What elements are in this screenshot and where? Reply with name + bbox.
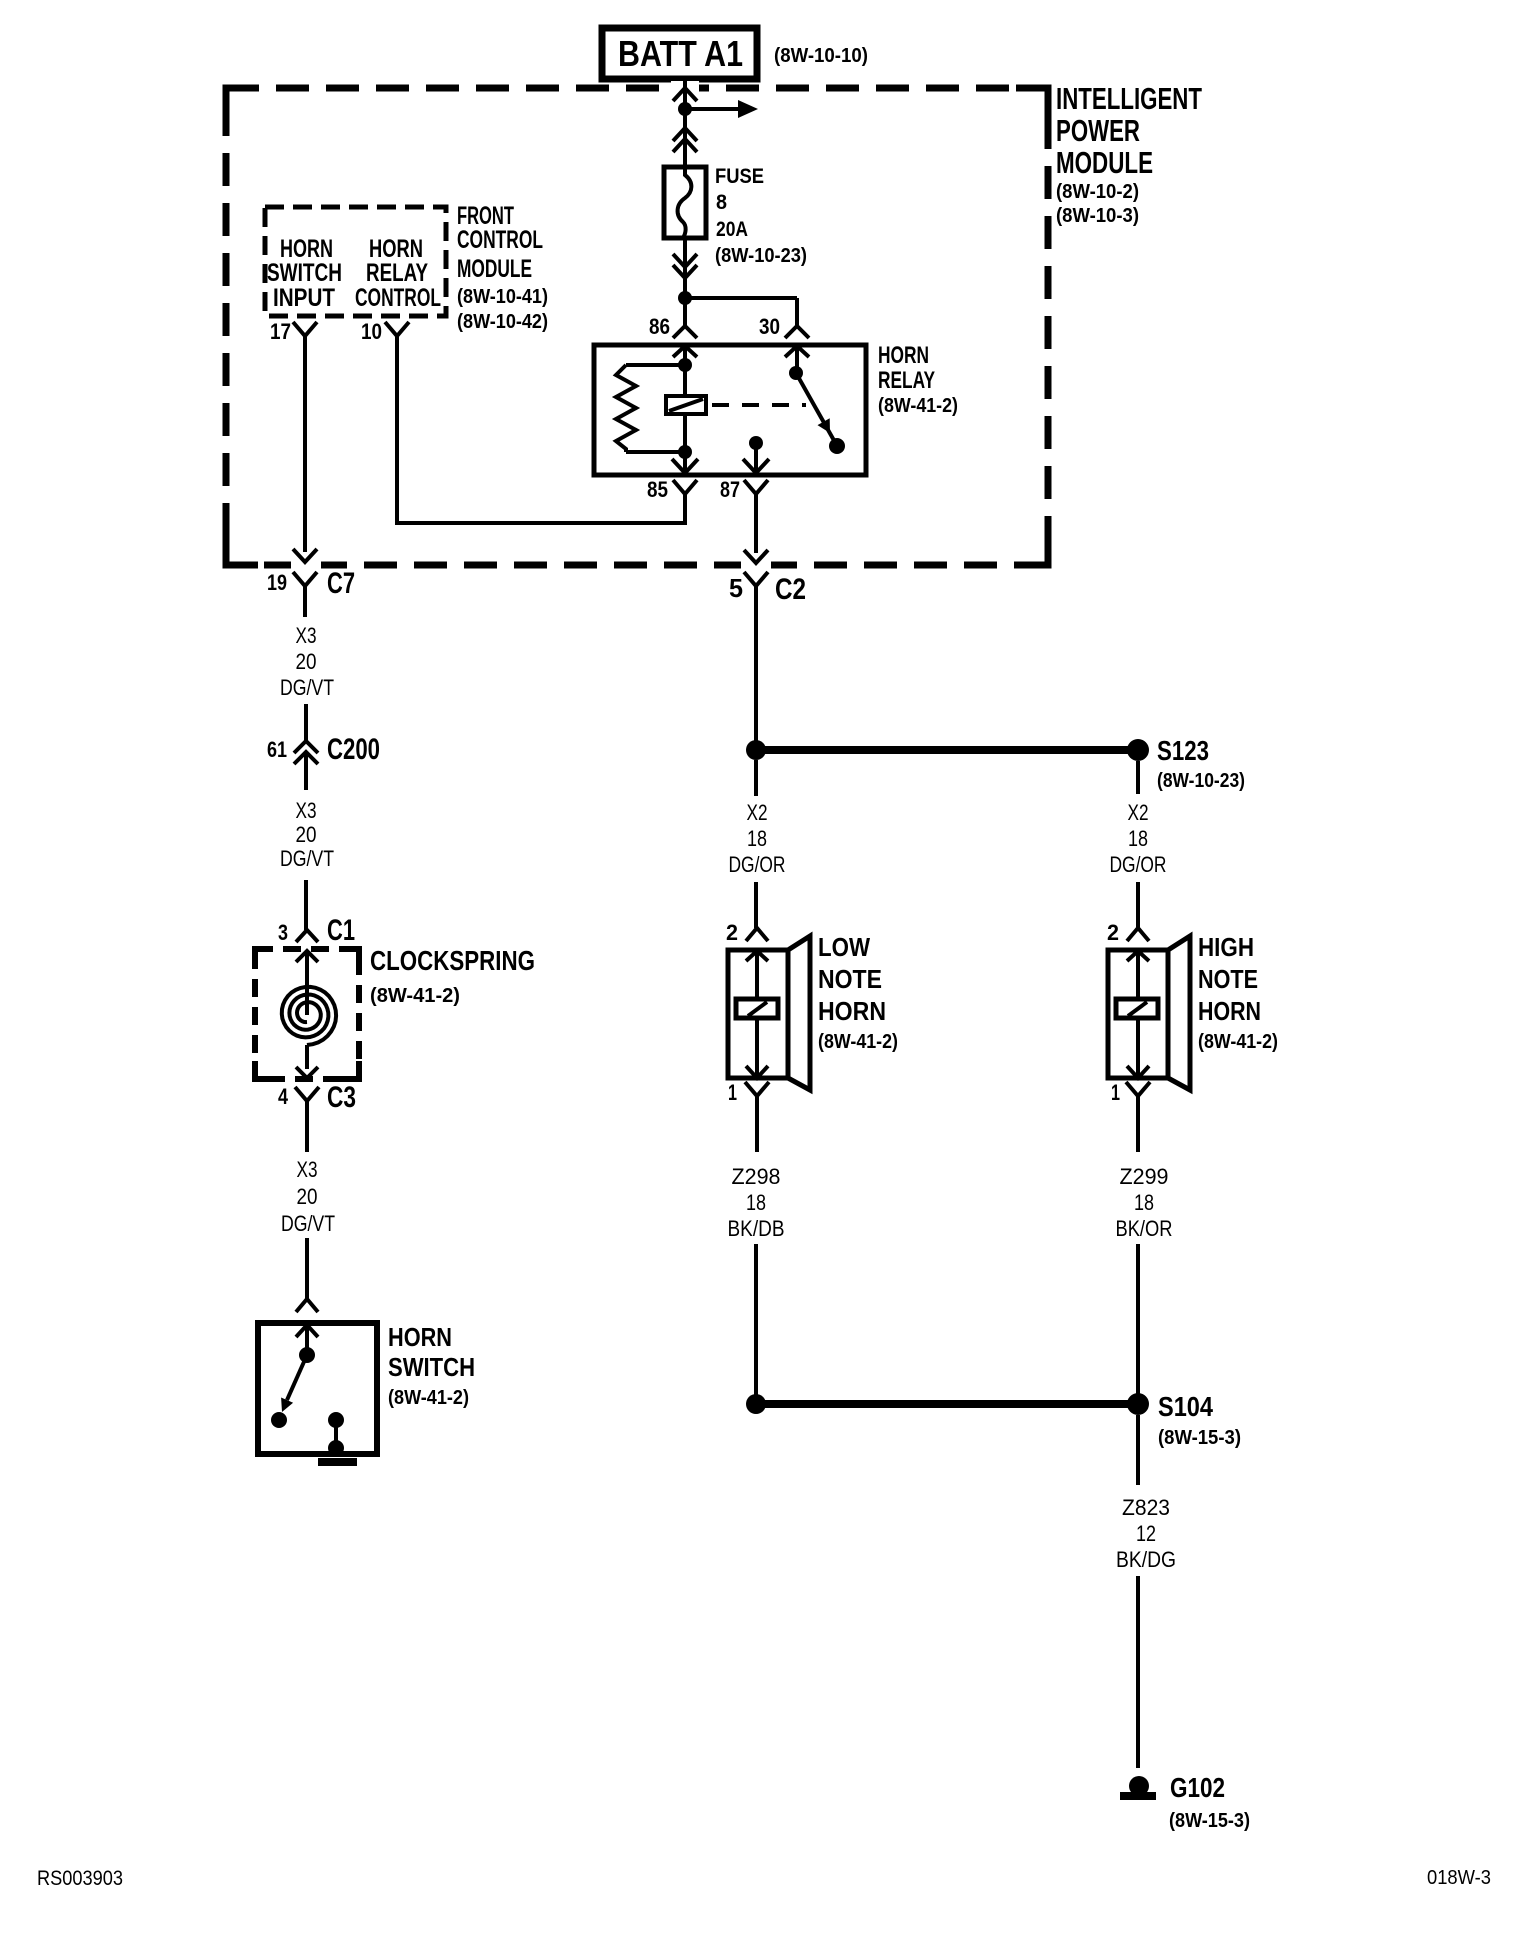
wire C3 to horn switch [305,1238,309,1299]
clockspring box (dashed) [255,949,359,1079]
svg-text:61: 61 [267,737,287,762]
wire battery feed into IPM [683,79,687,109]
arrow out of low note horn [746,1066,768,1078]
svg-text:MODULE: MODULE [1056,145,1153,180]
svg-text:POWER: POWER [1056,113,1140,148]
arrow into low note horn [746,951,768,961]
clockspring coil symbol [282,951,336,1069]
svg-text:CONTROL: CONTROL [355,284,441,312]
connector pin 1 high note horn [1126,1082,1150,1152]
svg-text:87: 87 [720,477,740,502]
connector pin 17 [293,322,317,345]
relay pin 87 junction [749,436,763,450]
high note horn label [1198,932,1278,1053]
svg-text:NOTE: NOTE [1198,964,1258,994]
junction relay coil bottom [678,445,692,459]
junction to S104 [746,1394,766,1414]
connector into horn switch [296,1299,318,1312]
wire label X3 20 DG/VT middle [280,798,334,871]
svg-text:HORN: HORN [878,342,929,369]
svg-text:(8W-41-2): (8W-41-2) [818,1031,898,1053]
clockspring label [370,945,535,1007]
horn switch ground contact [328,1412,344,1456]
wire S104 to ground G102 [1136,1576,1140,1768]
svg-text:SWITCH: SWITCH [388,1352,475,1382]
svg-text:LOW: LOW [818,932,870,962]
svg-text:12: 12 [1136,1521,1156,1546]
wire high note horn to S104 [1136,1244,1140,1395]
connector pin 1 low note horn [745,1082,769,1152]
pin 5 label [729,573,743,603]
battery feed reference label [774,45,868,67]
svg-text:C200: C200 [327,733,380,766]
svg-text:HORN: HORN [388,1322,452,1352]
horn relay box [594,345,866,475]
pin 10 label [361,319,382,344]
svg-text:SWITCH: SWITCH [267,259,342,287]
svg-text:CLOCKSPRING: CLOCKSPRING [370,945,535,976]
wire horn relay control to relay pin 85 [395,345,687,523]
front control module box (dashed) [265,207,446,316]
arrow into clockspring [296,951,318,962]
wire label Z298 18 BK/DB [728,1164,785,1241]
svg-text:DG/VT: DG/VT [280,675,334,700]
svg-text:(8W-10-2): (8W-10-2) [1056,181,1139,203]
pin 2 label (low note) [726,920,738,945]
svg-text:HORN: HORN [1198,996,1261,1026]
svg-text:X2: X2 [747,800,768,825]
svg-text:(8W-41-2): (8W-41-2) [878,395,958,417]
arrow into battery feed at IPM border [673,88,697,101]
pin 4 label [278,1084,289,1109]
svg-text:Z823: Z823 [1122,1495,1170,1520]
wire junction to relay pin 30 [685,296,797,300]
high note horn coil [1116,999,1158,1018]
svg-text:85: 85 [647,477,668,502]
low note horn wire upper [755,951,759,999]
connector pin 10 [385,322,409,345]
arrow out of high note horn [1127,1066,1149,1078]
horn switch arm [281,1355,307,1412]
IPM name label [1056,81,1202,227]
arrow out of clockspring [296,1067,318,1078]
low note horn bell [788,936,810,1090]
horn relay control label [355,235,441,312]
arrow into relay at pin 86 [673,346,697,357]
svg-text:30: 30 [759,314,780,339]
pin 61 label [267,737,287,762]
wire horn switch input to C7 [303,345,307,552]
svg-text:18: 18 [1128,826,1148,851]
wire label Z299 18 BK/OR [1116,1164,1173,1241]
connector C200 name [327,733,380,766]
wire label X2 18 DG/OR (high note) [1110,800,1167,877]
svg-text:(8W-10-41): (8W-10-41) [457,286,548,308]
svg-text:HIGH: HIGH [1198,932,1254,962]
svg-text:RELAY: RELAY [366,259,428,287]
wire relay coil to pin 85 [683,414,687,473]
connector C1 [296,930,318,942]
connector C7 name [327,567,355,600]
ground G102 symbol [1120,1776,1156,1800]
Intelligent Power Module boundary (dashed) [226,81,1048,572]
svg-text:20A: 20A [716,218,748,241]
svg-text:HORN: HORN [818,996,886,1026]
low note horn coil [736,999,778,1018]
wire junction to fuse [683,109,687,167]
pin 1 label (high note) [1111,1080,1120,1105]
wire low note horn to S104 bus [754,1244,758,1395]
svg-text:DG/VT: DG/VT [280,846,334,871]
horn switch pivot contact [299,1347,315,1363]
connector C3 name [327,1081,356,1114]
fuse 8 20A [664,167,706,238]
pin 17 label [270,319,291,344]
relay contact pivot [789,366,803,380]
svg-text:RELAY: RELAY [878,367,935,394]
low note horn wire lower [755,1018,759,1076]
pin 30 label [759,314,780,339]
junction relay coil top [678,358,692,372]
footer drawing number left [37,1867,123,1890]
connector pin 87 [744,480,768,551]
junction below fuse [678,291,692,305]
arrow out of relay at pin 85 [672,459,698,473]
svg-text:BATT A1: BATT A1 [618,33,743,74]
arrow into high note horn [1127,951,1149,961]
wire horn switch internal [305,1325,309,1354]
connector C1 name [327,914,355,947]
ground G102 name [1169,1772,1250,1832]
svg-text:X3: X3 [296,798,317,823]
svg-text:20: 20 [296,649,317,674]
junction at battery feed [678,102,692,116]
svg-text:2: 2 [1107,920,1119,945]
svg-text:S123: S123 [1157,735,1209,766]
svg-text:C3: C3 [327,1081,356,1114]
pin 2 label (high note) [1107,920,1119,945]
pin 1 label (low note) [728,1080,737,1105]
svg-text:20: 20 [296,822,317,847]
svg-text:Z298: Z298 [732,1164,781,1189]
wire C200 to C1 [304,880,308,930]
relay resistor [616,365,685,452]
wire arrow to other circuits [685,100,758,118]
svg-text:18: 18 [1134,1190,1154,1215]
connector C2 name [775,573,806,606]
connector pin 86 [673,298,697,338]
svg-text:MODULE: MODULE [457,255,532,283]
svg-text:(8W-10-3): (8W-10-3) [1056,205,1139,227]
relay coil [666,396,706,414]
relay contact fixed point [829,438,845,454]
wire junction down segment [754,760,758,796]
svg-text:86: 86 [649,314,670,339]
svg-text:10: 10 [361,319,382,344]
arrow out of relay at pin 87 [743,459,769,473]
wire label Z823 12 BK/DG [1116,1495,1176,1572]
svg-text:8: 8 [716,191,727,214]
svg-text:DG/OR: DG/OR [1110,852,1167,877]
pin 86 label [649,314,670,339]
svg-text:(8W-10-23): (8W-10-23) [715,245,807,267]
pin 3 label [278,920,288,945]
wire relay pin 30 internal [795,347,799,372]
svg-text:S104: S104 [1158,1391,1213,1422]
high note horn bell [1168,936,1190,1090]
wire fuse to relay branch [683,238,687,298]
high note horn wire upper [1136,951,1140,999]
svg-text:17: 17 [270,319,291,344]
splice S123 name [1157,735,1245,792]
horn switch box [258,1323,377,1454]
arrow into horn switch [296,1325,318,1337]
svg-text:1: 1 [1111,1080,1120,1105]
wire C7 to C200 [304,704,308,741]
double chevron down below fuse [673,254,697,278]
connector pin 85 [673,480,697,523]
connector pin 2 high note horn [1127,928,1149,941]
svg-text:DG/VT: DG/VT [281,1211,335,1236]
horn relay label [878,342,958,417]
svg-text:(8W-41-2): (8W-41-2) [1198,1031,1278,1053]
svg-text:G102: G102 [1170,1772,1225,1803]
svg-text:(8W-15-3): (8W-15-3) [1169,1810,1250,1832]
svg-text:RS003903: RS003903 [37,1867,123,1890]
svg-text:1: 1 [728,1080,737,1105]
junction to S123 [746,740,766,760]
svg-text:(8W-15-3): (8W-15-3) [1158,1427,1241,1449]
svg-text:C2: C2 [775,573,806,606]
svg-text:X2: X2 [1128,800,1149,825]
wire to high note horn [1136,882,1140,928]
low note horn label [818,932,898,1053]
arrow out of IPM at C2 [744,550,768,563]
svg-text:C1: C1 [327,914,355,947]
svg-text:(8W-10-42): (8W-10-42) [457,311,548,333]
connector C3 [295,1087,319,1152]
svg-text:INPUT: INPUT [273,284,335,312]
wire label X3 20 DG/VT lower [281,1157,335,1236]
connector C7 [293,572,317,617]
svg-text:3: 3 [278,920,288,945]
svg-text:5: 5 [729,573,743,603]
wire splice bus to S123 [756,746,1138,754]
svg-text:NOTE: NOTE [818,964,882,994]
pin 19 label [267,570,287,595]
horn switch input label [267,235,342,312]
svg-text:19: 19 [267,570,287,595]
high note horn box [1108,950,1168,1078]
wire relay pin 87 to C2 [754,551,758,553]
battery feed BATT A1 box [602,28,757,79]
svg-text:2: 2 [726,920,738,945]
wire label X2 18 DG/OR (low note) [729,800,786,877]
splice S123 [1127,739,1149,761]
svg-text:(8W-10-10): (8W-10-10) [774,45,868,67]
wire label X3 20 DG/VT upper [280,623,334,700]
splice S104 name [1158,1391,1241,1449]
svg-text:4: 4 [278,1084,289,1109]
connector pin 2 low note horn [746,928,768,941]
wire S123 down segment [1136,761,1140,794]
wire C2 to splice junction [754,617,758,745]
horn switch label [388,1322,475,1409]
svg-text:INTELLIGENT: INTELLIGENT [1056,81,1202,116]
pin 85 label [647,477,668,502]
svg-text:(8W-41-2): (8W-41-2) [388,1387,469,1409]
wire relay pin 87 internal [754,443,758,473]
horn switch ground symbol [318,1458,357,1466]
arrow into relay at pin 30 [785,346,809,357]
svg-text:FUSE: FUSE [715,165,764,188]
front control module label [457,202,548,333]
arrow out of IPM at C7 [293,549,317,562]
pin 87 label [720,477,740,502]
splice S104 [1127,1393,1149,1415]
svg-text:Z299: Z299 [1120,1164,1169,1189]
svg-text:BK/DB: BK/DB [728,1216,785,1241]
connector C2 [744,572,768,617]
footer sheet number right [1427,1867,1491,1889]
relay coil to contact dashed link [712,403,806,407]
svg-text:CONTROL: CONTROL [457,226,543,254]
connector C200 (double chevron) [294,741,318,790]
horn switch moving contact [271,1412,287,1428]
svg-text:18: 18 [746,1190,766,1215]
relay contact arm [796,373,836,444]
svg-text:X3: X3 [296,623,317,648]
svg-text:20: 20 [297,1184,318,1209]
fuse label [715,165,807,267]
svg-text:(8W-41-2): (8W-41-2) [370,985,460,1007]
svg-text:DG/OR: DG/OR [729,852,786,877]
svg-text:BK/DG: BK/DG [1116,1547,1176,1572]
svg-text:018W-3: 018W-3 [1427,1867,1491,1889]
wire splice bus to S104 [756,1400,1138,1408]
svg-text:BK/OR: BK/OR [1116,1216,1173,1241]
svg-text:(8W-10-23): (8W-10-23) [1157,770,1245,792]
connector pin 30 [785,298,809,338]
double chevron up below battery junction [673,128,697,152]
svg-text:X3: X3 [297,1157,318,1182]
wire relay pin 86 internal [683,347,687,396]
svg-text:C7: C7 [327,567,355,600]
wire to low note horn [754,882,758,928]
svg-text:18: 18 [747,826,767,851]
high note horn wire lower [1136,1018,1140,1076]
low note horn box [728,950,788,1078]
wire S104 down segment [1136,1415,1140,1485]
